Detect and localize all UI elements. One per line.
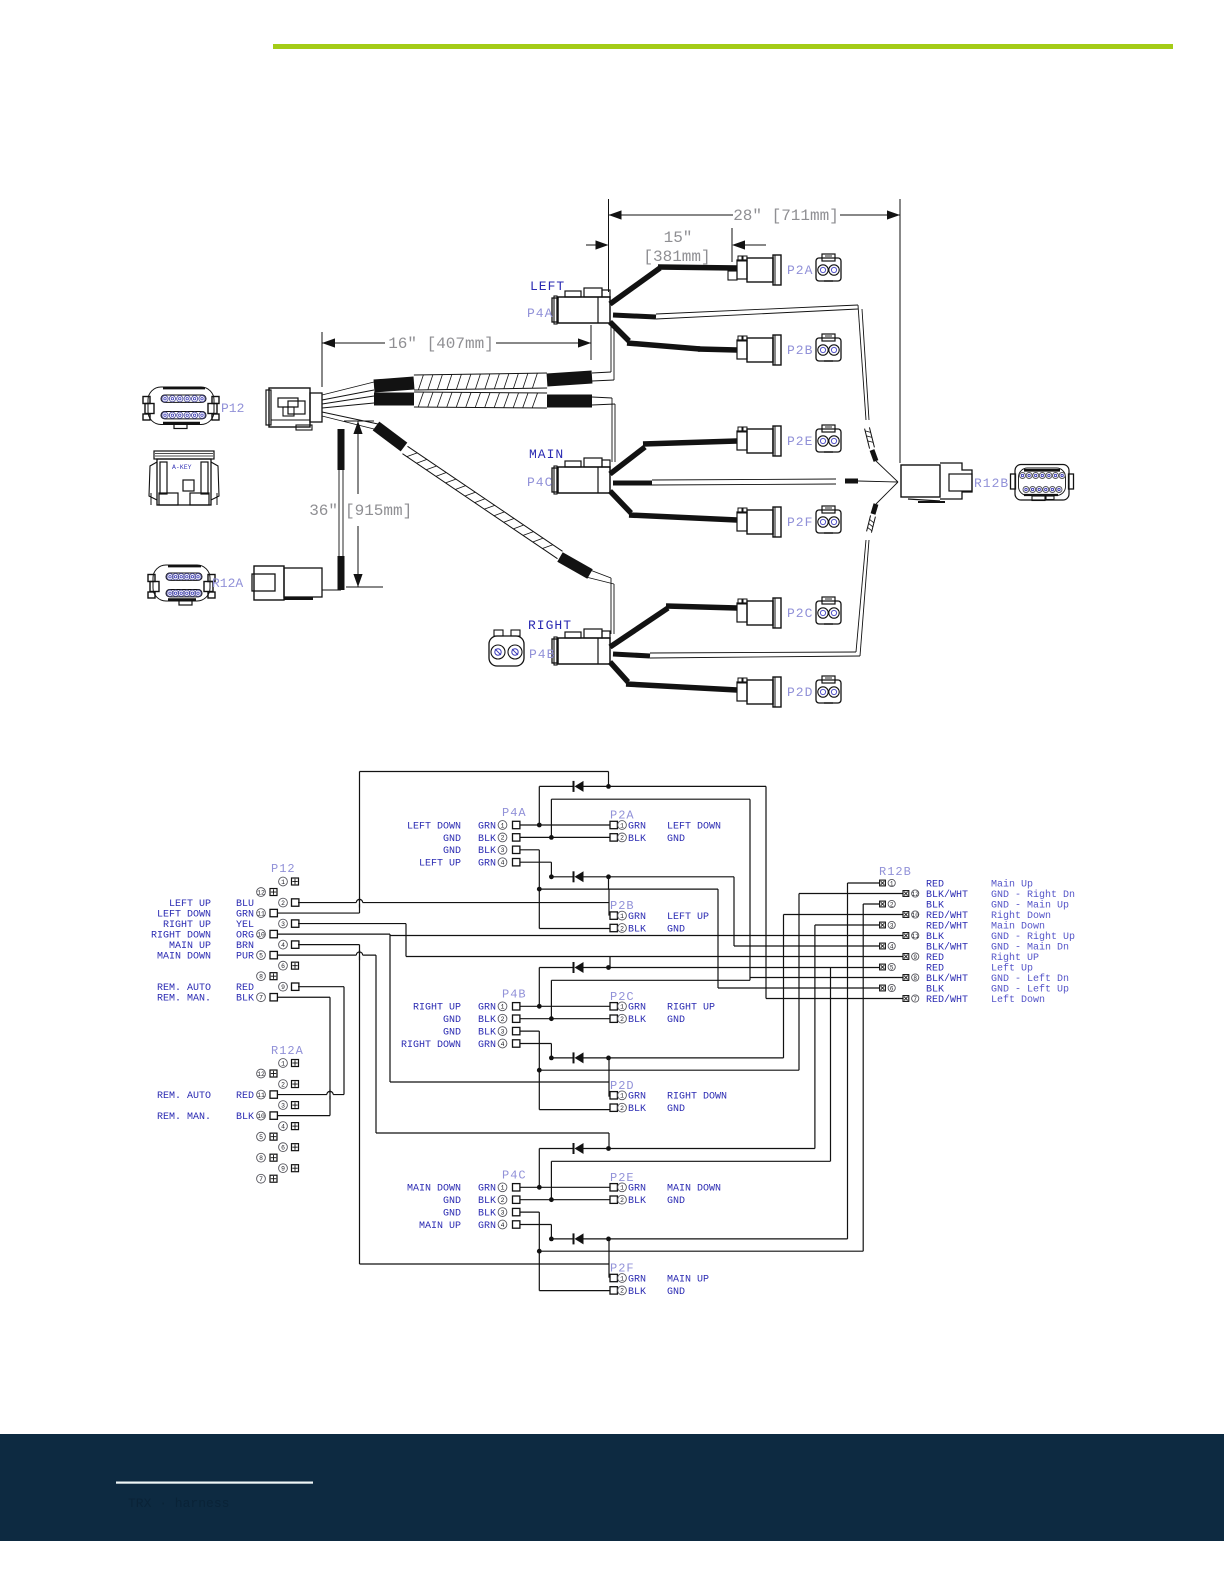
R12B pin 9 (Right UP) (903, 952, 1039, 964)
R12A pin 1 (279, 1059, 299, 1068)
svg-text:P4B: P4B (529, 647, 555, 662)
svg-text:BLK: BLK (628, 1196, 646, 1207)
svg-text:3: 3 (501, 1209, 505, 1216)
svg-text:RED: RED (926, 963, 944, 974)
svg-text:12: 12 (257, 889, 265, 896)
svg-text:8: 8 (913, 975, 917, 982)
diode D4 (right down) (574, 1052, 584, 1063)
svg-text:3: 3 (281, 921, 285, 928)
svg-text:8: 8 (259, 973, 263, 980)
svg-text:GND - Right Up: GND - Right Up (991, 931, 1075, 943)
svg-text:1: 1 (890, 880, 894, 887)
svg-text:RED/WHT: RED/WHT (926, 920, 968, 932)
svg-text:3: 3 (501, 1028, 505, 1035)
svg-text:RED: RED (236, 983, 254, 994)
svg-text:RIGHT DOWN: RIGHT DOWN (151, 931, 211, 942)
svg-text:P2A: P2A (787, 263, 813, 278)
svg-text:BLK: BLK (478, 1209, 496, 1220)
wire P4B-1 to P2C-1 (520, 1005, 610, 1007)
wire net REM. AUTO (P12-9 to R12A) (277, 987, 344, 1095)
svg-text:BLK: BLK (478, 1196, 496, 1207)
footer rule (116, 1482, 313, 1484)
P12 pin 12 (257, 888, 277, 897)
svg-text:GND: GND (443, 1028, 461, 1039)
wire R12B pin 10 stub (784, 914, 904, 916)
svg-text:GRN: GRN (478, 821, 496, 832)
P2B pin 2 (GND) (610, 924, 685, 936)
svg-text:BLK: BLK (628, 834, 646, 845)
svg-text:9: 9 (913, 954, 917, 961)
svg-text:7: 7 (259, 1176, 263, 1183)
svg-text:2: 2 (620, 1016, 624, 1023)
svg-text:REM. AUTO: REM. AUTO (157, 983, 211, 994)
connector P4B face icon (489, 630, 524, 666)
svg-text:5: 5 (259, 952, 263, 959)
R12B pin 2 (GND - Main Up) (880, 899, 1069, 911)
junction D6 left (549, 1237, 554, 1242)
wire hop marks (327, 898, 363, 1100)
wire net LEFT DOWN (P12-11 to diode D1) (277, 772, 609, 914)
diode D3 (right up) (574, 962, 584, 973)
svg-text:Left Down: Left Down (991, 994, 1045, 1006)
svg-text:2: 2 (281, 1081, 285, 1088)
wire GND row y889 to bus (539, 889, 718, 988)
svg-text:1: 1 (620, 1004, 624, 1011)
R12B pin 12 (GND - Right Dn) (903, 889, 1075, 901)
svg-text:GND: GND (667, 1015, 685, 1026)
svg-text:RED: RED (236, 1091, 254, 1102)
svg-text:1: 1 (501, 822, 505, 829)
svg-text:GND: GND (667, 1196, 685, 1207)
svg-text:GND - Main Dn: GND - Main Dn (991, 941, 1069, 953)
P4A pin 2 (GND) (443, 833, 520, 845)
connector A-KEY face view (149, 451, 219, 505)
svg-text:1: 1 (620, 913, 624, 920)
wire GND row y1251 to bus (539, 904, 863, 1251)
P12 pin 10 (257, 930, 278, 939)
svg-text:GRN: GRN (628, 1274, 646, 1285)
svg-text:2: 2 (620, 1288, 624, 1295)
wire diode D3 row to R12B-5 (539, 968, 879, 1007)
connector P2F face icon (816, 506, 841, 533)
svg-text:LEFT UP: LEFT UP (667, 912, 709, 923)
R12A pin 11 (257, 1090, 278, 1099)
svg-text:GND: GND (443, 1196, 461, 1207)
svg-text:4: 4 (281, 1123, 285, 1130)
svg-text:P2F: P2F (787, 515, 813, 530)
svg-text:TRX · harness: TRX · harness (128, 1496, 229, 1511)
junction P4B-2 (549, 1016, 554, 1021)
svg-text:2: 2 (620, 1105, 624, 1112)
svg-text:GND - Left Up: GND - Left Up (991, 983, 1069, 995)
wire R12B pin 4 stub (734, 945, 880, 947)
svg-text:GND - Left Dn: GND - Left Dn (991, 973, 1069, 985)
P2F pin 1 (MAIN UP) (610, 1274, 709, 1286)
svg-text:RIGHT DOWN: RIGHT DOWN (667, 1092, 727, 1103)
junction D4 right (606, 1056, 611, 1061)
svg-text:4: 4 (501, 1222, 505, 1229)
dimension 28" [711mm] (609, 199, 901, 463)
svg-text:3: 3 (890, 922, 894, 929)
wire R12B pin 3 stub (815, 924, 880, 926)
wire R12B pin 8 stub (750, 977, 903, 979)
svg-text:1: 1 (281, 1060, 285, 1067)
svg-text:1: 1 (620, 822, 624, 829)
svg-text:12: 12 (912, 891, 920, 898)
svg-text:YEL: YEL (236, 920, 254, 931)
svg-text:4: 4 (501, 860, 505, 867)
P4A pin 4 (LEFT UP) (419, 858, 520, 870)
connector P12 mating plug (trunk, side view) (266, 388, 322, 430)
svg-text:GND - Main Up: GND - Main Up (991, 899, 1069, 911)
svg-text:MAIN UP: MAIN UP (169, 941, 211, 952)
svg-text:ORG: ORG (236, 931, 254, 942)
svg-text:GND: GND (443, 1209, 461, 1220)
svg-text:P12: P12 (271, 862, 296, 876)
P2E pin 2 (GND) (610, 1195, 685, 1207)
junction P4C-1 (537, 1185, 542, 1190)
svg-text:GRN: GRN (628, 912, 646, 923)
wire net MAIN DOWN (P12-5 to diode D5 feed) (277, 955, 609, 1148)
P2E pin 1 (MAIN DOWN) (610, 1183, 721, 1195)
svg-text:RIGHT UP: RIGHT UP (413, 1003, 461, 1014)
wire P4C-2 to P2E-2 (520, 1199, 610, 1201)
diode D1 (left down) (574, 781, 584, 792)
R12B pin 4 (GND - Main Dn) (880, 941, 1069, 953)
dimension 16" [407mm] (322, 325, 591, 387)
svg-text:BLK: BLK (628, 1015, 646, 1026)
junction D2 right (606, 874, 611, 879)
wire P4A middle lead (thin, to R12B funnel) (613, 305, 898, 482)
svg-text:1: 1 (501, 1004, 505, 1011)
connector P2F side view (737, 507, 781, 537)
svg-text:GND: GND (443, 846, 461, 857)
svg-text:2: 2 (620, 1197, 624, 1204)
svg-text:RED/WHT: RED/WHT (926, 994, 968, 1006)
R12B pin 11 (GND - Right Up) (903, 931, 1075, 943)
P12 pin 11 (257, 909, 278, 918)
svg-text:2: 2 (501, 1197, 505, 1204)
svg-text:BLK: BLK (478, 846, 496, 857)
svg-text:BRN: BRN (236, 941, 254, 952)
svg-text:R12B: R12B (879, 865, 912, 879)
P4C pin 2 (GND) (443, 1195, 520, 1207)
P2A pin 1 (LEFT DOWN) (610, 821, 721, 833)
R12B pin 7 (Left Down) (903, 994, 1045, 1006)
svg-text:PUR: PUR (236, 952, 254, 963)
connector P2B face icon (816, 334, 841, 361)
wire P4B-3 (GND) down to row y1070 and P2D-2 (520, 1031, 610, 1110)
P2C pin 1 (RIGHT UP) (610, 1002, 715, 1014)
connector P2D face icon (816, 676, 841, 703)
P2D pin 1 (RIGHT DOWN) (610, 1091, 727, 1103)
R12A pin 9 (279, 1164, 299, 1173)
svg-text:LEFT UP: LEFT UP (419, 859, 461, 870)
wire P4C-3 (GND) down to row y1251 and P2F-2 (520, 1212, 610, 1291)
svg-text:GRN: GRN (628, 1003, 646, 1014)
wire GND row y1070 to bus (539, 894, 799, 1071)
svg-text:GND: GND (667, 1287, 685, 1298)
svg-text:GRN: GRN (628, 1184, 646, 1195)
diode D6 (main up) (574, 1233, 584, 1244)
svg-text:3: 3 (501, 847, 505, 854)
svg-text:8: 8 (259, 1155, 263, 1162)
junction D4 left (549, 1056, 554, 1061)
P12 pin 8 (257, 972, 277, 981)
junction D6 right (606, 1237, 611, 1242)
R12B pin 5 (Left Up) (880, 962, 1033, 974)
svg-text:BLK: BLK (926, 984, 944, 995)
svg-text:Right Down: Right Down (991, 910, 1051, 922)
svg-text:P4C: P4C (502, 1168, 527, 1182)
svg-text:2: 2 (890, 901, 894, 908)
wire P4A-4 (LEFT UP) to diode D2 row (520, 862, 551, 877)
junction P4B-1 (537, 1004, 542, 1009)
wire R12B pin 7 stub (766, 998, 903, 1000)
svg-text:P4B: P4B (502, 987, 527, 1001)
wire P4C-1 to P2E-1 (520, 1186, 610, 1188)
svg-text:3: 3 (281, 1102, 285, 1109)
svg-text:MAIN DOWN: MAIN DOWN (667, 1184, 721, 1195)
svg-text:1: 1 (501, 1185, 505, 1192)
wire bundle trunk to P4A (loom) (374, 325, 614, 390)
P4C pin 3 (GND) (443, 1208, 520, 1220)
svg-text:BLK: BLK (926, 900, 944, 911)
svg-text:2: 2 (620, 835, 624, 842)
svg-text:BLK/WHT: BLK/WHT (926, 941, 968, 953)
svg-text:1: 1 (620, 1093, 624, 1100)
dimension 15" [381mm] (586, 228, 766, 266)
svg-text:28″ [711mm]: 28″ [711mm] (733, 207, 839, 225)
diode D2 (left up) (574, 871, 584, 882)
R12A pin 8 (257, 1153, 277, 1162)
connector R12B side view (900, 199, 972, 502)
P2F pin 2 (GND) (610, 1286, 685, 1298)
svg-text:P2E: P2E (787, 434, 813, 449)
junction GND row y889 (537, 887, 542, 892)
svg-text:11: 11 (912, 933, 920, 940)
svg-text:4: 4 (890, 943, 894, 950)
wire R12B pin 1 stub (848, 882, 880, 884)
junction D2 left (549, 874, 554, 879)
connector R12B face view (1011, 465, 1074, 501)
dimension 36" [915mm] (309, 421, 412, 587)
svg-text:GRN: GRN (628, 1092, 646, 1103)
svg-text:BLK: BLK (478, 1028, 496, 1039)
svg-text:LEFT UP: LEFT UP (169, 899, 211, 910)
wire net REM. MAN. (P12-7 to R12A) (277, 997, 330, 1115)
wire GND row y980 (551, 980, 750, 1018)
P12 pin 1 (279, 877, 299, 886)
svg-text:MAIN UP: MAIN UP (419, 1221, 461, 1232)
svg-text:P2D: P2D (787, 685, 813, 700)
svg-text:P4A: P4A (502, 806, 527, 820)
junction P4A-1 (537, 823, 542, 828)
svg-text:4: 4 (281, 942, 285, 949)
svg-text:P2C: P2C (787, 606, 813, 621)
svg-text:[381mm]: [381mm] (643, 248, 710, 266)
svg-text:RIGHT UP: RIGHT UP (667, 1003, 715, 1014)
junction P4C-2 (549, 1197, 554, 1202)
svg-text:GRN: GRN (478, 1040, 496, 1051)
svg-text:BLU: BLU (236, 899, 254, 910)
R12A pin 4 (279, 1122, 299, 1131)
junction D5 (606, 1146, 611, 1151)
connector R12A side view (harness) (252, 566, 341, 600)
junction P4A-2 (549, 835, 554, 840)
svg-text:Main Down: Main Down (991, 920, 1045, 932)
svg-text:2: 2 (281, 900, 285, 907)
svg-text:RED/WHT: RED/WHT (926, 910, 968, 922)
R12A pin 3 (279, 1101, 299, 1110)
connector P2D side view (737, 677, 781, 707)
svg-text:6: 6 (281, 963, 285, 970)
P12 pin 9 (279, 982, 299, 991)
P2D pin 2 (GND) (610, 1103, 685, 1115)
svg-text:RIGHT UP: RIGHT UP (163, 920, 211, 931)
svg-text:MAIN UP: MAIN UP (667, 1274, 709, 1285)
connector P2C side view (737, 598, 781, 628)
connector P12 face view (143, 387, 219, 429)
wire P4A to P2B (thick) (610, 322, 737, 350)
P12 pin 4 (279, 940, 299, 949)
svg-text:7: 7 (259, 995, 263, 1002)
svg-text:GRN: GRN (478, 859, 496, 870)
svg-text:Left Up: Left Up (991, 962, 1033, 974)
R12A pin 2 (279, 1080, 299, 1089)
wire diode D1 row to bus and P4A-1 (539, 786, 766, 998)
svg-text:9: 9 (281, 1166, 285, 1173)
svg-text:MAIN: MAIN (529, 447, 564, 462)
svg-text:12: 12 (257, 1071, 265, 1078)
diode D5 (main down) (574, 1143, 584, 1154)
R12B pin 10 (Right Down) (903, 910, 1051, 922)
svg-text:9: 9 (281, 984, 285, 991)
wire P4B to P2D (thick) (610, 662, 737, 690)
svg-text:6: 6 (281, 1144, 285, 1151)
svg-text:GND: GND (443, 834, 461, 845)
R12B pin 1 (Main Up) (880, 878, 1033, 890)
P4A pin 1 (LEFT DOWN) (407, 821, 520, 833)
R12A pin 12 (257, 1069, 277, 1078)
wire P4C middle lead (thin, to R12B funnel) (613, 479, 898, 485)
wire P4B to P2C (thick) (610, 606, 737, 647)
wire P4B-4 (RIGHT DOWN) to diode D4 row (520, 1044, 551, 1058)
wire net MAIN UP (P12-4 to bottom section) (298, 945, 609, 1264)
wire P4C to P2F (thick) (610, 491, 737, 520)
P4C pin 1 (MAIN DOWN) (407, 1183, 520, 1195)
svg-text:36″: 36″ (309, 502, 338, 520)
wire P4C-4 (MAIN UP) to diode D6 row (520, 1225, 551, 1239)
svg-text:7: 7 (913, 996, 917, 1003)
connector P4A (LEFT) (552, 288, 610, 324)
R12A pin 6 (279, 1143, 299, 1152)
svg-text:GND: GND (443, 1015, 461, 1026)
P4B pin 1 (RIGHT UP) (413, 1002, 520, 1014)
wire P4B-2 to P2C-2 (520, 1018, 610, 1020)
junction D1 / R12B-7 (606, 784, 611, 789)
svg-text:MAIN DOWN: MAIN DOWN (157, 952, 211, 963)
wire trunk drop to R12A (339, 429, 343, 590)
footer band (0, 1434, 1224, 1541)
svg-text:1: 1 (620, 1185, 624, 1192)
svg-text:RIGHT DOWN: RIGHT DOWN (401, 1040, 461, 1051)
svg-text:1: 1 (281, 879, 285, 886)
connector P4B (RIGHT) (552, 629, 610, 665)
P12 pin 2 (279, 898, 299, 907)
svg-text:BLK: BLK (926, 932, 944, 943)
P12 pin 3 (279, 919, 299, 928)
P12 pin 6 (279, 961, 299, 970)
page header rule (green) (273, 44, 1173, 49)
wire bundle trunk to P4C (loom) (374, 392, 615, 462)
wire net RIGHT UP (P12-3 long run to R12B-9) (298, 924, 903, 968)
svg-text:R12B: R12B (974, 476, 1009, 491)
svg-text:BLK/WHT: BLK/WHT (926, 889, 968, 901)
svg-text:MAIN DOWN: MAIN DOWN (407, 1184, 461, 1195)
P2C pin 2 (GND) (610, 1014, 685, 1026)
svg-text:R12A: R12A (271, 1044, 304, 1058)
svg-text:RED: RED (926, 953, 944, 964)
connector P2A face icon (816, 254, 841, 281)
R12B pin 3 (Main Down) (880, 920, 1045, 932)
svg-text:LEFT: LEFT (530, 279, 565, 294)
svg-text:GRN: GRN (478, 1184, 496, 1195)
wire R12B pin 12 stub (799, 893, 903, 895)
wire diode D2 row to bus (551, 877, 734, 946)
svg-text:LEFT DOWN: LEFT DOWN (407, 821, 461, 832)
svg-text:BLK: BLK (628, 1287, 646, 1298)
svg-text:2: 2 (620, 925, 624, 932)
junction GND row y1070 (537, 1068, 542, 1073)
wire P4A-3 (GND) down to row y889 and P2B-2 (520, 850, 610, 929)
svg-text:11: 11 (257, 910, 265, 917)
svg-text:REM. MAN.: REM. MAN. (157, 1112, 211, 1123)
svg-text:GND: GND (667, 834, 685, 845)
svg-text:GRN: GRN (478, 1221, 496, 1232)
svg-text:6: 6 (890, 985, 894, 992)
P4B pin 2 (GND) (443, 1014, 520, 1026)
P4B pin 3 (GND) (443, 1027, 520, 1039)
svg-text:LEFT DOWN: LEFT DOWN (157, 909, 211, 920)
wire fan from trunk connector (322, 382, 378, 430)
svg-text:BLK: BLK (236, 1112, 254, 1123)
wire diode D4 row to bus (551, 915, 783, 1097)
wire P4C to P2E (thick) (610, 441, 737, 474)
wire R12B pin 2 stub (863, 903, 879, 905)
P4A pin 3 (GND) (443, 845, 520, 857)
svg-text:GND - Right Dn: GND - Right Dn (991, 889, 1075, 901)
connector P2B side view (737, 335, 781, 365)
svg-text:BLK: BLK (478, 834, 496, 845)
R12A pin 7 (257, 1174, 277, 1183)
wire GND header row y799 (551, 799, 750, 980)
svg-text:BLK: BLK (236, 994, 254, 1005)
R12B pin 8 (GND - Left Dn) (903, 973, 1069, 985)
svg-text:RED: RED (926, 879, 944, 890)
svg-text:Right UP: Right UP (991, 952, 1039, 964)
svg-text:BLK: BLK (628, 1104, 646, 1115)
R12B pin 6 (GND - Left Up) (880, 983, 1069, 995)
svg-text:A-KEY: A-KEY (172, 464, 192, 471)
svg-text:R12A: R12A (212, 576, 243, 591)
svg-text:GRN: GRN (236, 909, 254, 920)
svg-text:BLK/WHT: BLK/WHT (926, 973, 968, 985)
svg-text:GND: GND (667, 1104, 685, 1115)
junction GND row y1251 (537, 1249, 542, 1254)
wire P4A-2 to P2A-2 (520, 836, 610, 838)
svg-text:1: 1 (620, 1275, 624, 1282)
